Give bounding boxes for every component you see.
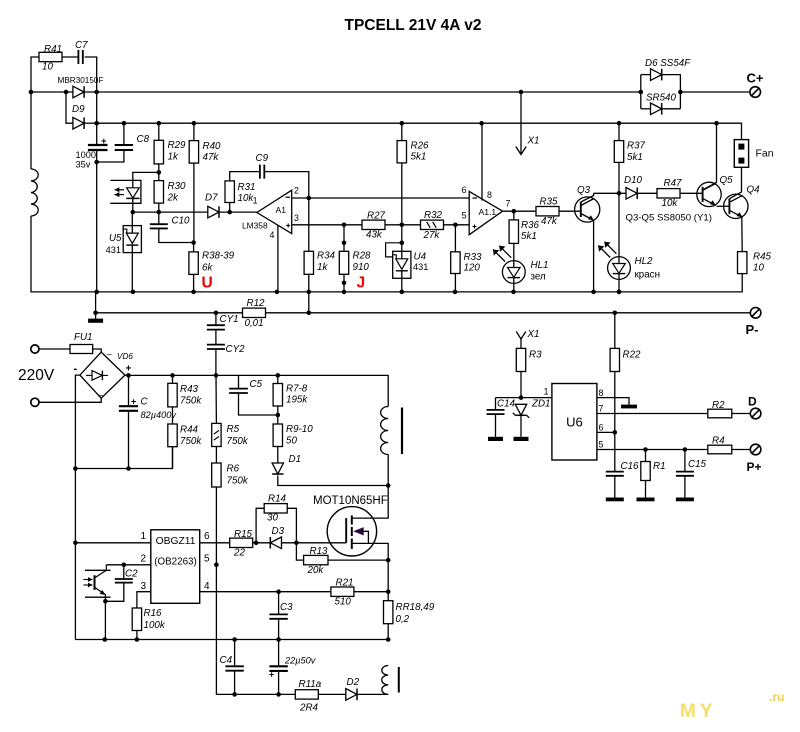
svg-text:J: J bbox=[357, 275, 366, 292]
svg-text:R12: R12 bbox=[247, 298, 266, 309]
svg-text:8: 8 bbox=[487, 190, 492, 200]
svg-text:P+: P+ bbox=[747, 460, 762, 474]
svg-text:2: 2 bbox=[294, 186, 299, 196]
svg-text:510: 510 bbox=[335, 597, 352, 608]
svg-text:MBR30150F: MBR30150F bbox=[58, 76, 104, 85]
svg-text:C5: C5 bbox=[250, 379, 263, 390]
svg-text:D9: D9 bbox=[72, 104, 85, 115]
svg-text:100k: 100k bbox=[144, 620, 166, 631]
svg-text:A1.1: A1.1 bbox=[479, 207, 497, 217]
svg-text:R16: R16 bbox=[144, 608, 163, 619]
svg-text:R34: R34 bbox=[317, 251, 336, 262]
svg-text:4: 4 bbox=[270, 230, 275, 240]
svg-text:красн: красн bbox=[635, 270, 661, 281]
svg-text:431: 431 bbox=[413, 262, 428, 272]
svg-text:27k: 27k bbox=[423, 230, 441, 241]
svg-text:120: 120 bbox=[464, 263, 481, 274]
svg-text:R45: R45 bbox=[753, 252, 772, 263]
svg-text:VD6: VD6 bbox=[117, 352, 133, 361]
svg-text:43k: 43k bbox=[366, 230, 383, 241]
svg-text:0,01: 0,01 bbox=[245, 318, 264, 329]
svg-text:195k: 195k bbox=[286, 395, 308, 406]
svg-text:R3: R3 bbox=[529, 350, 542, 361]
svg-text:82µ400v: 82µ400v bbox=[141, 410, 178, 420]
svg-text:22: 22 bbox=[233, 548, 245, 559]
svg-text:R30: R30 bbox=[168, 181, 187, 192]
svg-text:.ru: .ru bbox=[769, 690, 784, 704]
svg-text:750k: 750k bbox=[227, 476, 249, 487]
svg-text:D3: D3 bbox=[272, 526, 285, 537]
svg-text:R11a: R11a bbox=[299, 679, 322, 690]
svg-text:50: 50 bbox=[286, 436, 297, 447]
svg-text:R26: R26 bbox=[411, 141, 430, 152]
svg-text:4: 4 bbox=[204, 581, 210, 592]
svg-text:22µ50v: 22µ50v bbox=[284, 656, 317, 666]
svg-text:910: 910 bbox=[353, 262, 370, 273]
svg-text:R13: R13 bbox=[310, 546, 329, 557]
svg-text:D10: D10 bbox=[624, 175, 643, 186]
svg-text:X1: X1 bbox=[527, 329, 540, 340]
svg-text:R1: R1 bbox=[653, 461, 666, 472]
svg-text:R27: R27 bbox=[367, 211, 386, 222]
svg-text:R33: R33 bbox=[464, 252, 483, 263]
svg-text:CY1: CY1 bbox=[220, 314, 239, 325]
svg-text:35v: 35v bbox=[76, 160, 91, 170]
svg-text:U6: U6 bbox=[566, 415, 583, 430]
svg-text:R47: R47 bbox=[664, 178, 683, 189]
svg-text:P-: P- bbox=[746, 322, 759, 337]
svg-text:R4: R4 bbox=[712, 436, 725, 447]
svg-text:D: D bbox=[748, 395, 757, 409]
svg-text:RR18,49: RR18,49 bbox=[396, 602, 435, 613]
svg-text:CY2: CY2 bbox=[226, 344, 246, 355]
svg-text:R28: R28 bbox=[353, 251, 372, 262]
svg-text:LM358: LM358 bbox=[242, 221, 268, 231]
svg-text:R29: R29 bbox=[168, 140, 187, 151]
svg-text:5k1: 5k1 bbox=[521, 231, 537, 242]
svg-text:3: 3 bbox=[294, 213, 299, 223]
svg-text:FU1: FU1 bbox=[74, 332, 93, 343]
svg-text:R38-39: R38-39 bbox=[202, 251, 235, 262]
svg-text:D1: D1 bbox=[289, 454, 302, 465]
svg-text:5: 5 bbox=[204, 554, 210, 565]
svg-text:A1: A1 bbox=[276, 205, 287, 215]
svg-text:431: 431 bbox=[106, 245, 121, 255]
svg-text:R35: R35 bbox=[540, 197, 559, 208]
svg-text:R36: R36 bbox=[521, 220, 540, 231]
svg-text:750k: 750k bbox=[227, 436, 249, 447]
svg-text:2R4: 2R4 bbox=[299, 703, 319, 714]
svg-text:2: 2 bbox=[140, 554, 146, 565]
svg-text:20k: 20k bbox=[307, 565, 325, 576]
svg-text:R37: R37 bbox=[627, 141, 646, 152]
svg-text:7: 7 bbox=[506, 199, 511, 209]
svg-text:Q3: Q3 bbox=[577, 185, 591, 196]
svg-text:8: 8 bbox=[599, 388, 604, 398]
svg-text:R40: R40 bbox=[203, 141, 222, 152]
svg-text:R32: R32 bbox=[424, 210, 443, 221]
svg-text:C7: C7 bbox=[75, 40, 88, 51]
svg-text:R14: R14 bbox=[268, 494, 287, 505]
svg-text:1: 1 bbox=[544, 387, 549, 397]
svg-text:R7-8: R7-8 bbox=[286, 384, 308, 395]
svg-text:R15: R15 bbox=[234, 529, 253, 540]
svg-text:R21: R21 bbox=[336, 578, 354, 589]
svg-text:R31: R31 bbox=[238, 182, 256, 193]
svg-text:C4: C4 bbox=[220, 655, 233, 666]
svg-text:зел: зел bbox=[531, 272, 547, 283]
svg-text:+: + bbox=[131, 397, 136, 407]
svg-text:47k: 47k bbox=[203, 152, 220, 163]
svg-text:C3: C3 bbox=[280, 602, 293, 613]
svg-text:R6: R6 bbox=[227, 464, 240, 475]
svg-text:5: 5 bbox=[462, 211, 467, 221]
svg-text:6: 6 bbox=[204, 531, 210, 542]
svg-text:10: 10 bbox=[753, 263, 764, 274]
svg-text:U: U bbox=[202, 275, 213, 292]
svg-text:C: C bbox=[141, 397, 149, 408]
svg-text:OBGZ11: OBGZ11 bbox=[156, 536, 196, 547]
svg-text:D6 SS54F: D6 SS54F bbox=[645, 58, 691, 69]
svg-text:6: 6 bbox=[599, 423, 604, 433]
svg-text:R44: R44 bbox=[180, 425, 199, 436]
svg-text:MY: MY bbox=[680, 701, 717, 722]
svg-text:1k: 1k bbox=[168, 152, 179, 163]
svg-text:0,2: 0,2 bbox=[396, 614, 410, 625]
svg-text:HL1: HL1 bbox=[531, 260, 549, 271]
svg-text:R22: R22 bbox=[623, 350, 642, 361]
svg-text:~: ~ bbox=[107, 350, 113, 361]
svg-text:5k1: 5k1 bbox=[411, 152, 427, 163]
svg-text:Fan: Fan bbox=[756, 148, 774, 160]
svg-text:R2: R2 bbox=[712, 400, 725, 411]
svg-text:(OB2263): (OB2263) bbox=[154, 557, 196, 568]
svg-text:C16: C16 bbox=[621, 461, 640, 472]
svg-text:220V: 220V bbox=[18, 367, 55, 384]
svg-text:Q3-Q5 SS8050 (Y1): Q3-Q5 SS8050 (Y1) bbox=[626, 213, 712, 224]
svg-text:10k: 10k bbox=[662, 198, 679, 209]
svg-text:750k: 750k bbox=[180, 396, 202, 407]
svg-text:U4: U4 bbox=[414, 252, 427, 263]
svg-text:R41: R41 bbox=[44, 44, 62, 55]
svg-text:C2: C2 bbox=[125, 569, 138, 580]
svg-text:R5: R5 bbox=[227, 424, 240, 435]
svg-text:C10: C10 bbox=[172, 216, 191, 227]
svg-text:47k: 47k bbox=[541, 216, 558, 227]
svg-text:U5: U5 bbox=[109, 233, 122, 244]
svg-text:SR540: SR540 bbox=[646, 93, 677, 104]
svg-text:750k: 750k bbox=[180, 436, 202, 447]
svg-text:+: + bbox=[101, 136, 107, 147]
svg-text:D7: D7 bbox=[205, 193, 218, 204]
svg-text:2k: 2k bbox=[167, 193, 179, 204]
svg-text:5k1: 5k1 bbox=[627, 152, 643, 163]
svg-text:1: 1 bbox=[140, 531, 146, 542]
svg-text:6: 6 bbox=[462, 185, 467, 195]
svg-text:+: + bbox=[269, 670, 274, 680]
svg-text:MOT10N65HF: MOT10N65HF bbox=[313, 495, 388, 507]
svg-text:-: - bbox=[74, 363, 78, 375]
svg-text:C9: C9 bbox=[256, 153, 269, 164]
svg-text:1000: 1000 bbox=[76, 150, 96, 160]
svg-text:7: 7 bbox=[599, 404, 604, 414]
svg-text:C8: C8 bbox=[137, 134, 150, 145]
svg-text:Q5: Q5 bbox=[720, 175, 734, 186]
svg-text:6k: 6k bbox=[202, 263, 213, 274]
svg-text:R9-10: R9-10 bbox=[286, 424, 313, 435]
svg-text:D2: D2 bbox=[347, 677, 360, 688]
svg-text:C+: C+ bbox=[747, 71, 764, 86]
svg-text:10: 10 bbox=[42, 62, 53, 73]
svg-text:C15: C15 bbox=[688, 459, 707, 470]
svg-text:TPCELL 21V 4A v2: TPCELL 21V 4A v2 bbox=[345, 17, 482, 34]
svg-text:X1: X1 bbox=[527, 136, 540, 147]
svg-text:1k: 1k bbox=[317, 262, 328, 273]
svg-text:Q4: Q4 bbox=[747, 185, 761, 196]
svg-text:ZD1: ZD1 bbox=[531, 399, 551, 410]
svg-text:HL2: HL2 bbox=[635, 256, 654, 267]
svg-text:5: 5 bbox=[599, 440, 604, 450]
svg-text:+: + bbox=[126, 364, 132, 375]
svg-text:1: 1 bbox=[253, 196, 258, 206]
svg-text:C14: C14 bbox=[497, 399, 516, 410]
svg-text:R43: R43 bbox=[180, 384, 199, 395]
svg-text:30: 30 bbox=[267, 513, 278, 524]
svg-text:3: 3 bbox=[140, 581, 146, 592]
